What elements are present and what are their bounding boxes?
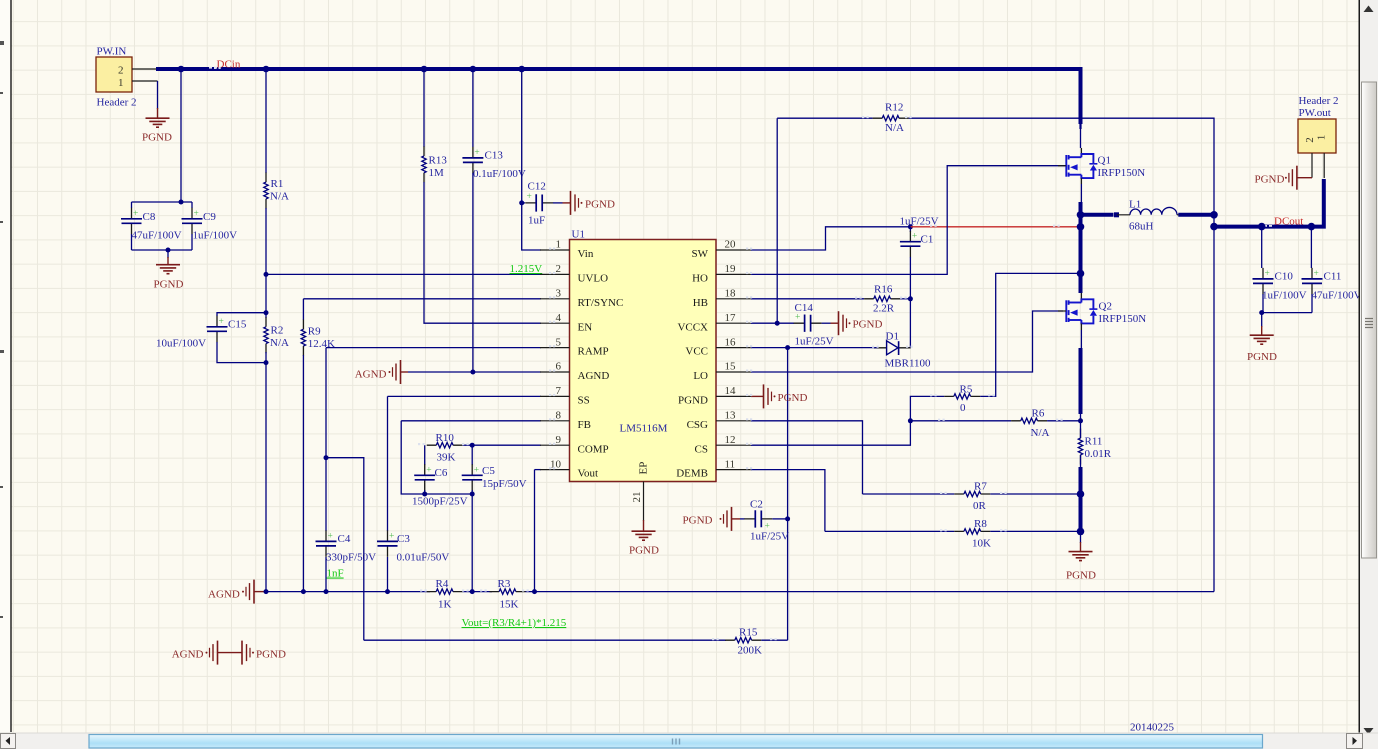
ground stem [157,108,159,118]
wire Vout net rail [526,591,1215,593]
resistor R16 (2.2R) [864,296,900,301]
svg-text:5: 5 [556,336,562,348]
svg-text:17: 17 [725,312,737,324]
svg-text:C3: C3 [397,533,410,545]
wire junction [1078,271,1083,276]
svg-text:R16: R16 [874,284,893,296]
sheet zone tick marks [0,41,4,618]
svg-text:0R: 0R [973,500,987,512]
svg-text:0: 0 [960,402,966,414]
svg-text:PGND: PGND [1066,570,1096,582]
vertical scrollbar down arrow [1364,728,1374,735]
wire junction [1077,528,1085,536]
wire junction [1077,211,1085,219]
power ground PGND (C14) [839,311,851,335]
wire junction [1308,223,1316,231]
svg-text:10K: 10K [972,537,991,549]
svg-text:CS: CS [695,443,708,455]
component lead [1080,293,1082,299]
svg-text:20: 20 [725,239,737,251]
wire HB node to D1 cathode [906,299,910,348]
resistor R9 (12.4K) [301,320,305,356]
svg-text:C2: C2 [750,499,763,511]
wire junction [1077,223,1085,231]
wire CSG to R7 [863,493,955,495]
svg-text:C15: C15 [228,319,247,331]
svg-text:PGND: PGND [778,392,808,404]
power ground PGND (input caps) [156,265,180,274]
wire C6 top lead [424,445,426,465]
capacitor C12 (1uF) [525,192,553,212]
wire SW to Q2 drain [1080,273,1082,293]
svg-text:47uF/100V: 47uF/100V [132,229,182,241]
wire C6 bottom lead [424,490,426,494]
wire junction [385,589,390,594]
wire LO to Q2 gate [751,311,1063,372]
svg-text:RAMP: RAMP [578,346,609,358]
svg-text:PGND: PGND [1247,351,1277,363]
svg-text:PGND: PGND [154,279,184,291]
pin 3 RT/SYNC [540,288,623,309]
svg-text:1500pF/25V: 1500pF/25V [412,496,468,508]
wire junction [178,66,185,73]
svg-text:IRFP150N: IRFP150N [1099,313,1147,325]
svg-text:PGND: PGND [1255,173,1285,185]
svg-text:C1: C1 [921,234,934,246]
svg-text:12: 12 [725,434,736,446]
svg-text:R13: R13 [429,155,448,167]
pin 2 UVLO [540,263,608,284]
wire junction [470,492,475,497]
wire pin1 to PGND [157,81,159,109]
svg-text:FB: FB [578,419,591,431]
wire junction [1078,418,1083,423]
wire R11 leads [1080,414,1082,467]
svg-text:N/A: N/A [270,337,289,349]
wire C1 bottom lead [909,257,911,299]
wire DCin power bus [156,69,1081,124]
connector PW.out (Header 2) [1298,119,1336,153]
wire gate lead Q2 [1058,310,1066,312]
wire UVLO net [266,273,541,275]
wire junction [422,492,427,497]
svg-text:HB: HB [693,297,708,309]
pin 15 LO [693,361,751,382]
wire C13 to AGND net [472,173,474,372]
wire SW node (red colored) [910,226,1078,228]
wire SW to L1 [1081,213,1114,217]
pin 21 EP stub [643,482,645,522]
wire R9 to AGND rail [302,355,304,592]
svg-text:PW.IN: PW.IN [97,46,127,58]
wire C9 bottom lead [191,234,193,250]
resistor R6 (N/A) [1011,418,1047,423]
wire AGND rail [266,591,430,593]
wire junction [166,248,171,253]
svg-text:C14: C14 [795,302,814,314]
viewport border right [1358,0,1360,733]
svg-text:R3: R3 [498,578,511,590]
wire R16 to C1 bottom [900,298,910,300]
wire junction [263,66,270,73]
ground stem [751,395,764,397]
svg-text:10uF/100V: 10uF/100V [156,337,206,349]
pin 2 stub of PW.out [1311,153,1313,178]
wire R15 right segment [761,639,787,641]
wire L1 leads [1117,214,1179,216]
pin 16 VCC [685,336,751,357]
svg-text:PGND: PGND [678,395,708,407]
svg-text:VCCX: VCCX [677,321,708,333]
svg-text:20140225: 20140225 [1130,722,1175,734]
wire CSG down [751,421,863,494]
wire Vout to divider [534,470,536,592]
svg-text:2.2R: 2.2R [873,303,895,315]
horizontal scrollbar right button [1347,734,1363,749]
svg-text:+: + [219,317,224,327]
svg-text:1uF/100V: 1uF/100V [193,229,238,241]
svg-text:1.215V: 1.215V [510,263,543,275]
wire junction [532,589,537,594]
svg-text:AGND: AGND [172,649,204,661]
sheet border left edge [10,0,12,732]
svg-text:R4: R4 [436,578,449,590]
wire junction [908,224,913,229]
wire junction [470,370,475,375]
power ground PGND (PW.out) [1285,166,1297,190]
ground stem [1080,542,1082,551]
wire junction [301,589,306,594]
svg-text:C4: C4 [338,533,351,545]
wire VCCX up to R12 [776,118,778,323]
ground stem [401,371,409,373]
resistor R3 (15K) [490,589,526,594]
pin 18 HB [693,288,752,309]
svg-text:2: 2 [1304,137,1316,143]
svg-text:15pF/50V: 15pF/50V [482,478,527,490]
svg-text:Vin: Vin [578,248,594,260]
svg-text:R1: R1 [271,178,284,190]
wire SW to C1 [751,227,910,250]
wire RAMP net [326,347,541,349]
wire junction [264,272,269,277]
horizontal scrollbar left button [1,734,16,749]
svg-text:R2: R2 [271,325,284,337]
svg-text:1: 1 [1316,135,1328,141]
wire junction [470,443,475,448]
svg-text:C8: C8 [143,211,156,223]
wire junction [421,66,428,73]
wire C8 bottom lead [131,234,133,250]
svg-text:1uF/100V: 1uF/100V [1262,289,1307,301]
wire R2 to AGND rail [265,352,267,592]
wire junction [264,360,269,365]
svg-text:PGND: PGND [142,132,172,144]
wire PGND to C2 [740,518,745,520]
svg-text:COMP: COMP [578,443,609,455]
analog ground AGND (tie) [206,641,218,665]
svg-text:0.1uF/100V: 0.1uF/100V [473,168,526,180]
power ground PGND (C12) [571,191,583,215]
svg-text:Vout=(R3/R4+1)*1.215: Vout=(R3/R4+1)*1.215 [462,617,567,629]
resistor R7 (0R) [954,491,990,496]
wire junction [1077,490,1085,498]
svg-text:1nF: 1nF [327,568,344,580]
svg-text:AGND: AGND [578,370,610,382]
wire C9 top lead [191,202,193,208]
no-ERC marks near components [214,67,1063,640]
svg-text:C11: C11 [1324,271,1342,283]
svg-text:9: 9 [556,434,562,446]
svg-text:N/A: N/A [885,122,904,134]
wire C14 to PGND [822,322,831,324]
wire C11 bottom lead [1311,294,1313,313]
svg-text:Q1: Q1 [1098,155,1111,167]
vertical scrollbar up arrow [1364,6,1374,13]
wire junction [470,589,475,594]
connector J PW.IN (Header 2) [96,57,132,92]
wire C15 top bracket [217,313,266,316]
resistor R8 (10K) [954,529,990,534]
wire Q1 source to SW [1080,184,1082,204]
svg-text:47uF/100V: 47uF/100V [1312,289,1362,301]
ground stem [643,520,645,531]
wire junction [324,589,329,594]
svg-text:R5: R5 [960,384,973,396]
capacitor C13 (0.1uF/100V) [462,147,483,174]
wire RAMP tap down [326,458,364,641]
svg-text:HO: HO [692,273,708,285]
svg-text:4: 4 [556,312,562,324]
resistor R5 (0) [944,394,980,399]
pin 10 Vout [540,458,598,479]
wire Q2 source [1080,330,1082,350]
svg-text:+: + [389,531,394,541]
svg-text:IRFP150N: IRFP150N [1098,167,1146,179]
svg-text:RT/SYNC: RT/SYNC [578,297,624,309]
analog ground AGND (rail) [242,580,254,604]
svg-text:39K: 39K [437,452,456,464]
svg-text:Vout: Vout [578,468,599,480]
capacitor C6 (1500pF/25V) [414,464,435,491]
resistor R1 (N/A) [264,173,268,209]
wire C8/C9 bottom rail [132,249,193,251]
wire comp network to divider [471,494,473,592]
wire DEMB to R8 [825,530,954,532]
svg-text:+: + [1314,269,1319,279]
svg-text:PGND: PGND [853,319,883,331]
svg-text:SW: SW [692,248,709,260]
wire SW node bus [1079,202,1083,293]
wire VCCX to C14 [751,322,794,324]
svg-text:1K: 1K [438,599,452,611]
transistor Q2 IRFP150N [1066,299,1097,323]
component lead [1080,178,1082,184]
wire C4 to AGND rail [325,557,327,592]
wire bus to C8/C9 [180,69,182,202]
svg-text:PGND: PGND [585,199,615,211]
wire VCC net [751,347,788,349]
wire C12 to PGND [553,202,563,204]
capacitor C10 (1uF/100V) [1253,268,1274,295]
svg-text:16: 16 [725,336,737,348]
component lead [1080,323,1082,330]
capacitor C4 (330pF/50V) [316,530,337,557]
power ground PGND (sense) [1069,552,1093,561]
svg-text:200K: 200K [738,645,763,657]
svg-text:VCC: VCC [685,346,708,358]
svg-text:DCout: DCout [1274,215,1303,227]
wire C8/C9 top rail [132,201,193,203]
power ground PGND (EP pad) [632,531,656,540]
svg-text:L1: L1 [1129,199,1141,211]
wire junction [1259,310,1264,315]
svg-text:R9: R9 [308,326,321,338]
wire DEMB down [751,470,825,532]
wire bus to R13 [423,69,425,147]
power ground PGND (pin 14) [764,384,776,408]
wire AGND to pin 6 [408,371,541,373]
analog ground AGND (pin 6) [389,360,401,384]
wire COMP net [463,444,541,446]
capacitor C1 (1uF/25V) [900,231,921,258]
wire R15 left segment [364,639,726,641]
ground stem [254,591,266,593]
wire junction [264,589,269,594]
wire sense bus to ground [1079,467,1083,535]
pin 11 DEMB [676,458,751,479]
svg-text:DEMB: DEMB [676,468,708,480]
capacitor C2 (1uF/25V) [744,510,772,531]
resistor R2 (N/A) [264,317,268,353]
svg-text:PGND: PGND [683,514,713,526]
capacitor C9 (1uF/100V) [182,208,203,235]
resistor R4 (1K) [427,589,463,594]
svg-text:C9: C9 [203,211,216,223]
wire bus tip [1079,124,1081,129]
diode D1 MBR1100 [874,341,910,355]
svg-text:CSG: CSG [687,419,708,431]
wire VCC down to R15 [787,348,789,641]
wire junction [264,310,269,315]
svg-text:N/A: N/A [270,191,289,203]
wire bus to Vin pin [522,69,541,250]
svg-text:1: 1 [556,239,562,251]
wire UVLO to R2 [265,274,267,318]
svg-text:+: + [474,465,479,475]
svg-text:+: + [133,209,138,219]
svg-text:2: 2 [556,263,562,275]
svg-text:Q2: Q2 [1099,301,1112,313]
horizontal scrollbar track [0,733,1378,749]
svg-text:R12: R12 [885,102,903,114]
svg-text:R6: R6 [1032,407,1045,419]
wire RAMP to C4 [325,348,327,531]
wire AGND-PGND tie [218,652,243,654]
wire R6 left segment [910,420,1011,422]
svg-text:MBR1100: MBR1100 [885,358,932,370]
svg-text:Header 2: Header 2 [1299,95,1339,107]
svg-text:C5: C5 [482,465,495,477]
wire R12 to output loop [909,118,1214,591]
svg-text:330pF/50V: 330pF/50V [326,552,376,564]
svg-text:LM5116M: LM5116M [620,423,668,435]
net label anchor marks [1264,225,1272,227]
svg-text:R7: R7 [974,481,987,493]
svg-text:68uH: 68uH [1129,220,1154,232]
wire R12 left segment [777,117,872,119]
svg-text:+: + [426,465,431,475]
transistor Q1 IRFP150N [1066,154,1097,178]
resistor R12 (N/A) [873,116,909,121]
component lead [1080,148,1082,154]
svg-text:19: 19 [725,263,737,275]
svg-text:C12: C12 [528,181,546,193]
wire R13 to EN pin [424,182,541,323]
svg-text:1uF/25V: 1uF/25V [750,531,789,543]
wire D1 anode to VCC [788,347,878,349]
wire C10 top lead [1261,227,1263,268]
wire C5 top lead [471,445,473,465]
wire junction [1210,223,1218,231]
pin 17 VCCX [677,312,751,333]
svg-text:6: 6 [556,361,562,373]
wire junction [1258,223,1266,231]
pin 2 stub of PW.IN [132,68,157,70]
svg-text:15K: 15K [500,599,519,611]
ground stem [563,202,571,204]
capacitor C8 (47uF/100V) [121,208,142,235]
wire C3 to AGND rail [387,557,389,592]
wire junction [518,66,525,73]
svg-text:R11: R11 [1085,435,1103,447]
pin 13 CSG [687,410,752,431]
pin 12 CS [695,434,752,455]
pin 5 RAMP [540,336,609,357]
wire R7 to sense bus [990,493,1080,495]
net label anchor marks [209,67,217,69]
svg-text:1uF: 1uF [528,215,545,227]
svg-text:SS: SS [578,395,590,407]
wire FB divider node [463,591,492,593]
svg-text:N/A: N/A [1031,427,1050,439]
svg-text:PGND: PGND [256,649,286,661]
pin 1 stub of PW.out [1323,153,1325,178]
wire C5 bottom lead [471,490,473,494]
svg-text:14: 14 [725,385,737,397]
pin 1 stub of PW.IN [132,80,158,82]
svg-text:15: 15 [725,361,737,373]
ground stem [831,322,839,324]
svg-text:R15: R15 [739,627,758,639]
ground stem [1297,177,1312,179]
vertical scrollbar track [1360,0,1378,733]
inductor L1 (68uH) [1130,207,1177,214]
svg-text:1M: 1M [429,167,445,179]
svg-text:10: 10 [550,458,562,470]
svg-text:1uF/25V: 1uF/25V [900,215,939,227]
svg-text:+: + [328,531,333,541]
power ground PGND (tie) [242,641,254,665]
svg-text:3: 3 [556,288,562,300]
wire L1 to DCout [1178,213,1214,217]
wire DCout bus [1214,179,1324,227]
wire CS up to node [751,421,910,445]
wire C10/C11 bottom rail [1263,312,1312,314]
svg-text:8: 8 [556,410,562,422]
wire junction [785,345,790,350]
pin 7 SS [540,385,590,406]
